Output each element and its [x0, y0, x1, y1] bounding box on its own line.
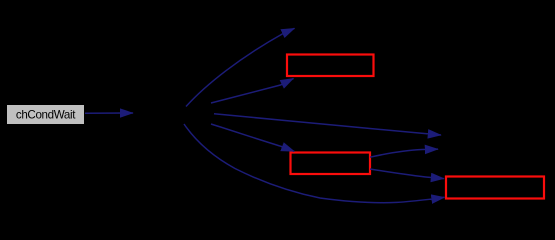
node red box 1 (upper callee, truncated) — [287, 55, 374, 77]
edge red box 2 -> hidden right node (ascending arrow) — [370, 149, 438, 157]
edge hidden node -> hidden top node (curved up arrow) — [186, 28, 295, 106]
node red box 2 (middle callee, truncated) — [291, 153, 371, 175]
svg-text:chCondWait: chCondWait — [16, 109, 76, 122]
node red box 3 (lower right callee, truncated) — [446, 177, 544, 199]
edge hidden node -> red box 1 (arrow into bottom-left corner) — [211, 78, 294, 103]
node chCondWait (current function, gray) — [7, 105, 85, 125]
edge hidden node -> hidden right node (long upper arrow) — [214, 114, 441, 135]
edge red box 2 -> red box 3 (descending arrow) — [370, 169, 444, 179]
edge chCondWait -> hidden node (horizontal arrow) — [85, 112, 133, 114]
edge hidden node -> red box 3 (big bottom curve) — [184, 124, 445, 203]
edge hidden node -> red box 2 (arrow into top-left corner) — [211, 124, 294, 151]
